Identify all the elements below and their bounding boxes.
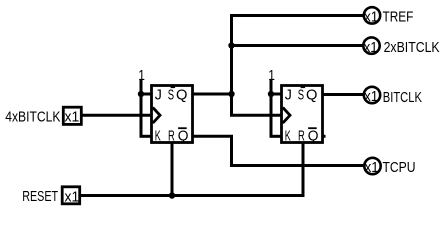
svg-text:Q: Q <box>176 87 187 103</box>
svg-text:Q: Q <box>308 128 319 145</box>
svg-text:S: S <box>168 86 174 103</box>
svg-text:BITCLK: BITCLK <box>383 88 422 105</box>
svg-text:x1: x1 <box>365 160 379 177</box>
svg-text:4xBITCLK: 4xBITCLK <box>5 109 60 125</box>
svg-text:2xBITCLK: 2xBITCLK <box>384 39 440 55</box>
svg-text:R: R <box>298 127 305 144</box>
svg-text:1: 1 <box>138 67 145 84</box>
svg-text:x1: x1 <box>364 9 378 26</box>
svg-text:TREF: TREF <box>383 8 414 25</box>
svg-text:RESET: RESET <box>22 187 58 204</box>
svg-text:K: K <box>155 127 162 144</box>
svg-text:x1: x1 <box>364 89 378 106</box>
svg-text:x1: x1 <box>364 39 378 56</box>
svg-text:x1: x1 <box>65 109 80 126</box>
svg-text:S: S <box>298 86 304 103</box>
svg-text:J: J <box>155 87 162 103</box>
svg-text:R: R <box>168 127 175 144</box>
svg-text:K: K <box>285 127 292 144</box>
svg-text:Q: Q <box>306 87 317 103</box>
svg-text:J: J <box>285 87 292 103</box>
svg-text:1: 1 <box>268 67 275 84</box>
svg-text:x1: x1 <box>65 189 80 206</box>
svg-text:Q: Q <box>178 128 189 145</box>
svg-text:TCPU: TCPU <box>383 159 416 175</box>
